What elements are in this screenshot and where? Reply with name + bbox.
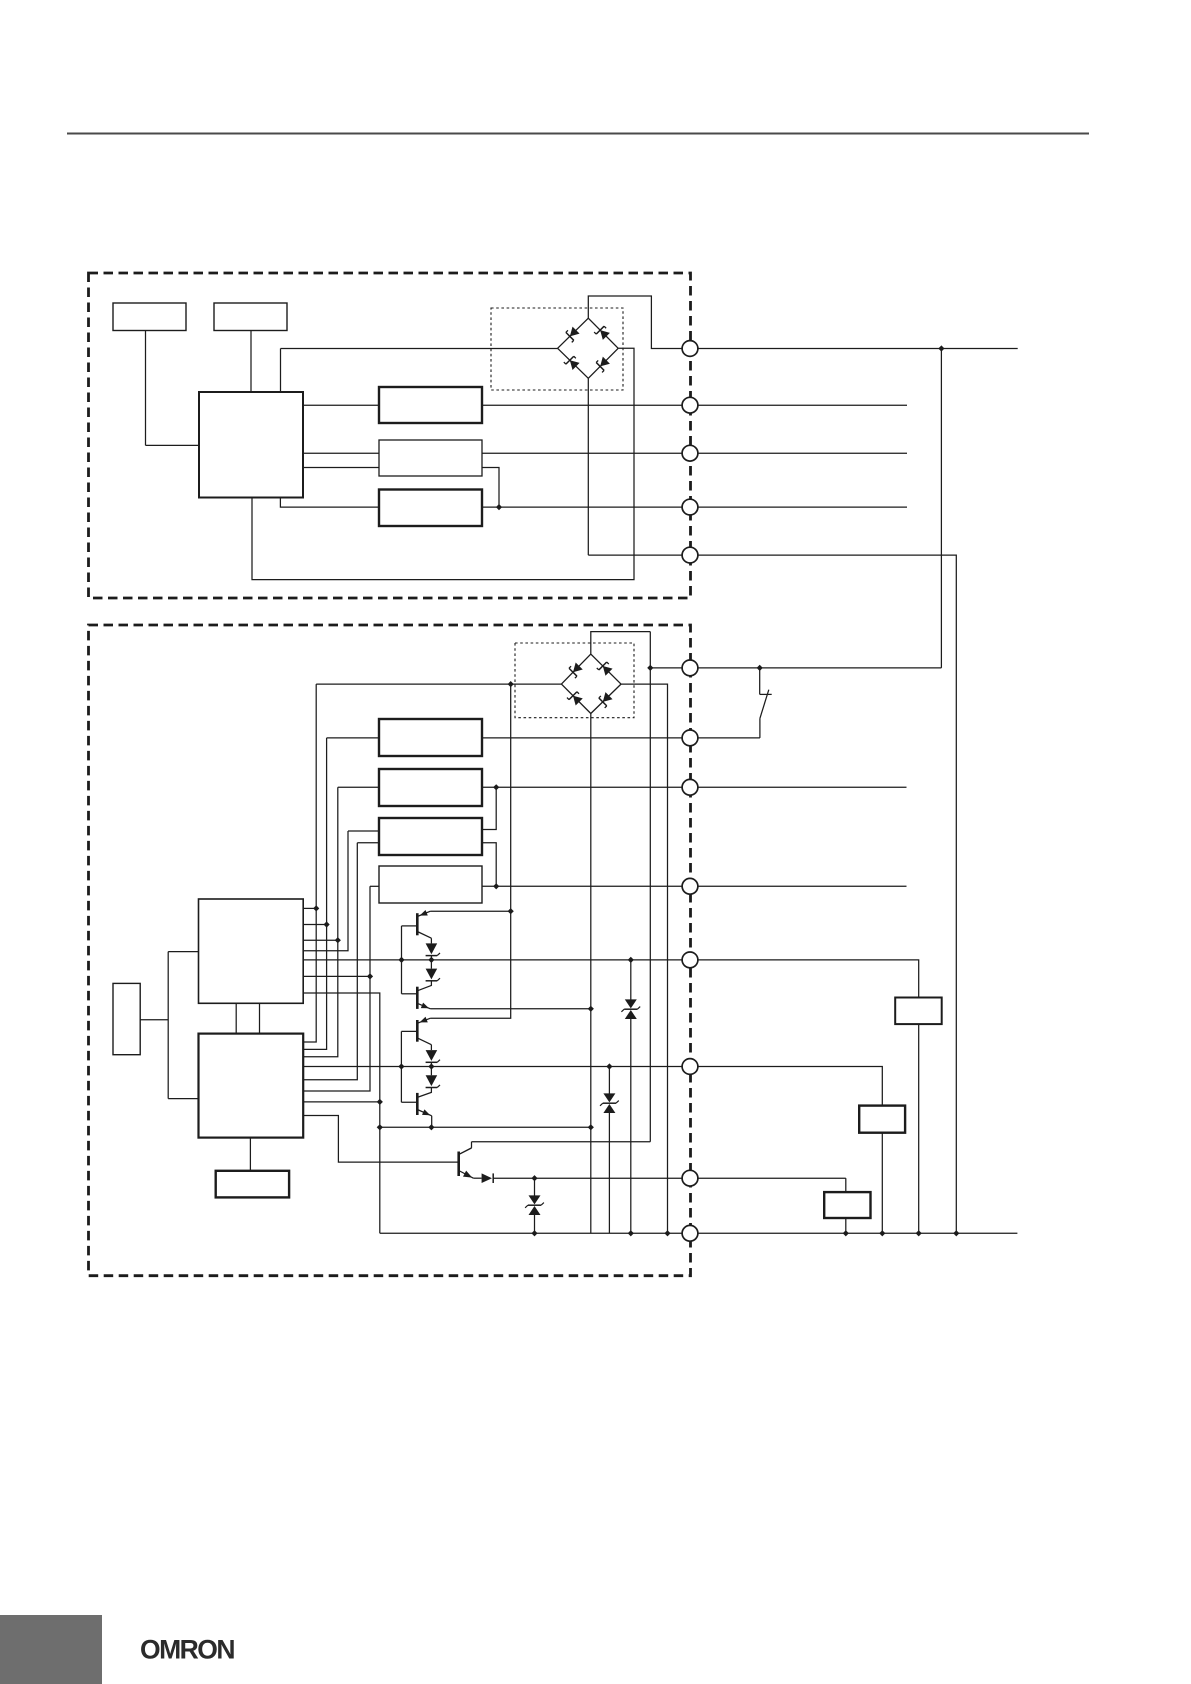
junction Z1 at bottom rail bbox=[531, 1230, 537, 1236]
fine-dotted enclosure around bridge DB1 bbox=[491, 308, 623, 390]
TVS diode Z2 bbox=[600, 1093, 619, 1113]
wire A1 to U1 left bbox=[146, 444, 200, 446]
switch SW1 bbox=[760, 668, 772, 738]
wire DB2 left vertex to left bundle bbox=[316, 683, 561, 685]
drive block G1 bbox=[379, 719, 482, 756]
fine-dotted enclosure around bridge DB2 bbox=[515, 643, 634, 718]
junction bundle-v7 with M2 pin7 bbox=[377, 1099, 383, 1105]
wire M1 pin5 stub bbox=[303, 975, 370, 977]
terminal 8 (lower block) bbox=[682, 779, 698, 795]
wire F2 lower output down to row4 bbox=[482, 468, 499, 508]
arrow Q2a emitter (pointing to base) bbox=[420, 1017, 428, 1023]
wire Q3 collector row bbox=[472, 1141, 651, 1143]
transistor Q2a (PNP, upper) bbox=[417, 1018, 431, 1044]
wire A2 to U1 top bbox=[250, 331, 252, 393]
wire terminal9 row right bbox=[690, 885, 907, 887]
junction row10 at Q1 bases bbox=[398, 957, 404, 963]
wire U1 to F1 bbox=[303, 404, 379, 406]
TVS diode Z3 bbox=[621, 999, 640, 1019]
block B2 (bottom small box) bbox=[216, 1171, 289, 1198]
wire row1 to bridge DB1 left vertex bbox=[281, 348, 558, 350]
main IC M1 (upper large square) bbox=[199, 899, 304, 1003]
wire into R3 bbox=[845, 1178, 847, 1192]
terminal 1 (upper block) bbox=[682, 341, 698, 357]
wire Q2a base stub bbox=[401, 1030, 417, 1032]
wire terminal12 row right bbox=[690, 1177, 846, 1179]
wire Z1 top lead bbox=[534, 1178, 536, 1195]
junction row6 at switch bbox=[757, 665, 763, 671]
terminal 7 (lower block) bbox=[682, 730, 698, 746]
drive block G3 bbox=[379, 818, 482, 855]
wire Z2 top lead bbox=[608, 1067, 610, 1094]
wire D3 to row11 bbox=[430, 1062, 432, 1075]
junction on G2 output row bbox=[493, 784, 499, 790]
wire bundle-v5 top to G3 lower left bbox=[357, 842, 379, 844]
junction bundle-v7 with Q2 emitter row bbox=[377, 1124, 383, 1130]
arrow Q3 emitter bbox=[463, 1171, 472, 1178]
diode D5 (series output diode) bbox=[482, 1173, 494, 1183]
wire Q1b base stub bbox=[402, 993, 418, 995]
junction Q2 emitter row at bridge-bottom rail bbox=[588, 1124, 594, 1130]
transistor Q1a (PNP, upper) bbox=[417, 911, 431, 938]
wire vertical from terminal1 junction down to lower row6 bbox=[940, 349, 942, 668]
terminal 11 (lower block) bbox=[682, 1059, 698, 1075]
main IC M2 (lower large square) bbox=[199, 1034, 304, 1138]
wire M1-M2 link left bbox=[235, 1003, 237, 1033]
junction R3 at bottom rail bbox=[843, 1230, 849, 1236]
terminal 2 (upper block) bbox=[682, 397, 698, 413]
junction row10 at TVS Z3 bbox=[628, 957, 634, 963]
terminal 3 (upper block) bbox=[682, 445, 698, 461]
diode D3 bbox=[426, 1050, 440, 1062]
block A2 (second small box) bbox=[214, 303, 287, 331]
wire bundle-v3 top to G2 left bbox=[338, 786, 379, 788]
arrow Q1a emitter (pointing to base) bbox=[420, 910, 428, 916]
junction row10 at Q1 diodes bbox=[428, 957, 434, 963]
wire bundle-v2 top to G1 left bbox=[327, 737, 379, 739]
junction row12 at TVS Z1 bbox=[531, 1175, 537, 1181]
wire Z2 bottom lead bbox=[608, 1113, 610, 1233]
control IC U1 (large square) bbox=[199, 392, 303, 498]
wire Q1b emitter row bbox=[430, 1008, 590, 1010]
resistor block R3 bbox=[824, 1192, 870, 1218]
junction bundle-v6 with M1 pin5 bbox=[367, 973, 373, 979]
dashed enclosure of lower circuit block bbox=[89, 625, 691, 1276]
terminal 9 (lower block) bbox=[682, 878, 698, 894]
wire bundle-v4 (G3 to M1 pin4) bbox=[303, 831, 348, 951]
wire Q3 collector riser bbox=[471, 1142, 473, 1148]
resistor block R1 bbox=[895, 998, 942, 1025]
wire DB2 top vertex over to row6 bbox=[591, 632, 651, 655]
wire G3 upper output up to G2 row bbox=[482, 787, 496, 829]
wire R2 bottom to bottom rail bbox=[881, 1133, 883, 1234]
block B1 (left small box) bbox=[113, 983, 140, 1054]
footer gray tab bbox=[0, 1615, 102, 1684]
wire bundle-v3 (G2 to M2) bbox=[303, 787, 338, 1057]
wire vertical x650 from row6 down to Q3 collector row bbox=[649, 632, 651, 1142]
function block F2 bbox=[379, 440, 482, 476]
junction on terminal1 row bbox=[938, 345, 944, 351]
wire Q3 emitter to D5 bbox=[473, 1177, 481, 1179]
wire terminal7 row to switch bottom bbox=[690, 737, 760, 739]
junction Q1b emitter at bridge-bottom rail bbox=[588, 1006, 594, 1012]
wire M1 pin2 stub bbox=[303, 924, 326, 926]
wire B1 output bbox=[140, 1019, 168, 1021]
junction bundle-v1 with M1 pin1 bbox=[313, 905, 319, 911]
wire G3 lower output down to G4 row bbox=[482, 843, 496, 887]
junction row11 at Q2 diodes bbox=[428, 1063, 434, 1069]
wire terminal10 row right into R1 bbox=[690, 960, 919, 998]
junction DB2-right rail at bottom rail bbox=[664, 1230, 670, 1236]
wire G4 to terminal 9 row bbox=[482, 885, 690, 887]
wire D4 to Q2b collector bbox=[430, 1088, 432, 1093]
wire bundle-v6 top to G4 left bbox=[370, 885, 379, 887]
wire terminal5 row right then down bbox=[690, 555, 956, 1233]
wire D1 to row10 bbox=[430, 956, 432, 969]
wire row5 to terminal 5 bbox=[588, 554, 690, 556]
wire Z3 bottom lead bbox=[630, 1019, 632, 1233]
terminal 12 (lower block) bbox=[682, 1170, 698, 1186]
wire M2 pin8 to Q3 base bbox=[303, 1116, 459, 1163]
rectifier bridge DB1 bbox=[558, 318, 619, 378]
wire bundle-v7 (M1 pin6 down to bottom rail) bbox=[303, 993, 380, 1233]
diode D4 bbox=[426, 1075, 440, 1087]
wire Q1a collector drop bbox=[430, 938, 432, 943]
dashed enclosure of upper circuit block bbox=[89, 273, 691, 598]
diode D2 bbox=[426, 969, 440, 981]
rectifier bridge DB2 bbox=[561, 654, 621, 713]
wire B1 fork vertical bbox=[167, 952, 169, 1099]
junction row11 at Q2 bases bbox=[398, 1063, 404, 1069]
wire Q2b emitter drop bbox=[431, 1116, 433, 1128]
wire U1 bottom stub to F3 bbox=[280, 498, 379, 508]
wire DB2 right vertex down right side bbox=[621, 684, 668, 1233]
wire M2 row to terminal 11 bbox=[303, 1066, 690, 1068]
wire U1 to F2 lower bbox=[303, 467, 379, 469]
page horizontal rule bbox=[67, 133, 1089, 135]
drive block G4 bbox=[379, 866, 482, 903]
wire DB1 top vertex over to terminal 1 bbox=[588, 296, 690, 349]
transistor Q2b (NPN, lower) bbox=[417, 1092, 431, 1115]
junction Q1a emitter on DC+ vertical bbox=[508, 908, 514, 914]
wire terminal1 row to right bbox=[690, 348, 1018, 350]
wire Z3 top lead bbox=[630, 960, 632, 1000]
terminal 10 (lower block) bbox=[682, 952, 698, 968]
drive block G2 bbox=[379, 769, 482, 806]
wire Q1a base stub bbox=[402, 925, 418, 927]
resistor block R2 bbox=[859, 1106, 905, 1133]
svg-text:OMRON: OMRON bbox=[140, 1635, 236, 1665]
wire Q2a collector drop bbox=[430, 1045, 432, 1050]
junction bundle-v3 with M1 pin3 bbox=[335, 937, 341, 943]
wire bundle-v2 (G1 to M2) bbox=[303, 738, 326, 1050]
wire F2 to terminal 3 row bbox=[482, 452, 907, 454]
junction row6 branch bbox=[647, 665, 653, 671]
wire terminal8 row right bbox=[690, 786, 907, 788]
function block F1 bbox=[379, 387, 482, 423]
wire node1 vertical into U1 top bbox=[280, 349, 282, 393]
diode D1 bbox=[426, 943, 440, 955]
wire bundle-v1 (DC+ to M1/M2) bbox=[303, 684, 316, 1042]
wire M1-M2 link right bbox=[259, 1003, 261, 1033]
wire U1 to F2 upper bbox=[303, 452, 379, 454]
wire B1 fork to M1 bbox=[168, 951, 198, 953]
wire A1 bottom stub bbox=[145, 331, 147, 446]
wire terminal11 row right into R2 bbox=[690, 1067, 882, 1106]
transistor Q3 (NPN output) bbox=[459, 1148, 474, 1178]
TVS diode Z1 bbox=[525, 1195, 544, 1215]
terminal 6 (lower block) bbox=[682, 660, 698, 676]
wire M2 to B2 bbox=[249, 1138, 251, 1171]
wire F1 to terminal 2 row bbox=[482, 404, 907, 406]
terminal 4 (upper block) bbox=[682, 499, 698, 515]
junction on G4 output row bbox=[493, 883, 499, 889]
wire G2 to terminal 8 row bbox=[482, 786, 690, 788]
block A1 (top-left small box) bbox=[113, 303, 186, 331]
wire Q1a emitter to DC+ vertical bbox=[430, 910, 510, 912]
wire M1 row to terminal 10 bbox=[303, 959, 690, 961]
wire Q3 collector up to x650 rail bbox=[459, 1148, 472, 1155]
wire DB1 bottom vertex down to row5 bbox=[587, 378, 589, 555]
wire Q2 emitter row bbox=[380, 1126, 591, 1128]
wire M1 pin1 stub bbox=[303, 907, 316, 909]
wire G1 to terminal 7 row bbox=[482, 737, 690, 739]
junction Q2b emitter on emitter row bbox=[428, 1124, 434, 1130]
wire Z1 bottom lead bbox=[534, 1215, 536, 1233]
wire bundle-v4 top to G3 upper left bbox=[348, 830, 379, 832]
wire bottom rail (terminal 13 row) bbox=[380, 1232, 1018, 1234]
junction bundle-v2 with M1 pin2 bbox=[324, 921, 330, 927]
wire bundle-v6 (G4 to M2) bbox=[303, 886, 370, 1091]
wire terminal6 row right bbox=[690, 667, 941, 669]
wire R3 bottom to bottom rail bbox=[845, 1218, 847, 1233]
arrow Q2b emitter bbox=[422, 1109, 430, 1115]
terminal 5 (upper block) bbox=[682, 547, 698, 563]
wire Q2 common-base vertical bbox=[400, 1031, 402, 1102]
junction R2 at bottom rail bbox=[879, 1230, 885, 1236]
wire M2 pin7 stub bbox=[303, 1101, 380, 1103]
junction row11 at TVS Z2 bbox=[606, 1063, 612, 1069]
wire D2 to Q1b collector bbox=[430, 981, 432, 986]
junction R1 at bottom rail bbox=[916, 1230, 922, 1236]
terminal 13 (lower block) bbox=[682, 1225, 698, 1241]
wire M1 pin3 stub bbox=[303, 939, 338, 941]
wire Q1 common-base vertical bbox=[401, 926, 403, 994]
wire F3 to terminal 4 row bbox=[482, 506, 907, 508]
junction DC+ branch bbox=[508, 681, 514, 687]
junction Z3 at bottom rail bbox=[628, 1230, 634, 1236]
wire row6 to terminal 6 bbox=[650, 667, 690, 669]
wire DB2 bottom vertex down to bottom rail bbox=[590, 714, 592, 1234]
wire B1 fork to M2 bbox=[168, 1098, 198, 1100]
wire DC+ vertical down to Q2 feed bbox=[430, 684, 510, 1018]
wire Q2b base stub bbox=[401, 1101, 417, 1103]
wire bundle-v5 (G3 lower to M2) bbox=[303, 843, 357, 1080]
wire R1 bottom to bottom rail bbox=[918, 1024, 920, 1233]
transistor Q1b (NPN, lower) bbox=[417, 985, 431, 1009]
arrow Q1b emitter bbox=[421, 1003, 429, 1009]
wire D5 to terminal 12 row bbox=[493, 1177, 690, 1179]
junction on row4 at F3 output bbox=[496, 504, 502, 510]
wire DB1 right vertex down to bottom rail bbox=[252, 348, 634, 579]
function block F3 bbox=[379, 490, 482, 527]
junction terminal5-rail at bottom rail bbox=[953, 1230, 959, 1236]
